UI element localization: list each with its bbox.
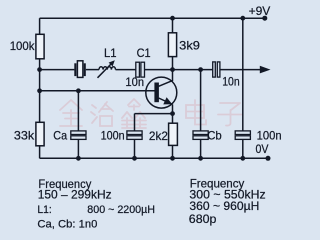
svg-text:800 ~ 2200µH: 800 ~ 2200µH: [87, 204, 155, 216]
node collector / 3k9 junction: [170, 67, 175, 72]
svg-text:10n: 10n: [125, 75, 144, 89]
node 100n ground: [132, 156, 137, 161]
svg-text:Cb: Cb: [207, 128, 222, 142]
wire left rail upper segment: [39, 18, 41, 35]
resistor R3 3k9: [168, 33, 176, 57]
wire Cb lower lead: [200, 139, 202, 158]
capacitor Cb: [193, 131, 208, 140]
crystal X1: [74, 61, 85, 78]
wire C1 to collector node: [145, 69, 173, 71]
wire 3k9 top lead: [172, 18, 174, 33]
wire left rail lower segment: [39, 146, 41, 159]
wire 100n lower lead: [134, 139, 136, 158]
node Cb tap: [198, 67, 203, 72]
wire left rail middle segment: [39, 59, 41, 123]
capacitor C2 100n emitter bypass: [127, 131, 142, 140]
svg-text:3k9: 3k9: [179, 39, 200, 53]
svg-text:L1: L1: [104, 46, 117, 60]
wire Cb vertical: [200, 70, 202, 131]
inductor L1 adjustable: [98, 60, 116, 78]
node decoupling ground: [240, 156, 245, 161]
svg-text:680p: 680p: [189, 212, 217, 226]
wire left rail to crystal: [40, 69, 75, 71]
0V terminal dot: [266, 156, 271, 161]
wire collector node to Cb node: [173, 69, 213, 71]
wire L1 to C1: [116, 69, 136, 71]
resistor R1 100k: [36, 34, 44, 59]
wire decoupling vertical: [242, 18, 244, 131]
svg-text:100n: 100n: [257, 128, 282, 142]
svg-text:Ca: Ca: [53, 128, 67, 142]
capacitor Ca: [71, 131, 86, 140]
wire 2k2 bottom lead: [172, 145, 174, 158]
svg-text:+9V: +9V: [249, 4, 271, 18]
node Ca tap: [76, 88, 81, 93]
wire top +9V rail: [40, 17, 265, 19]
node emitter junction: [170, 111, 175, 116]
node Cb ground: [198, 156, 203, 161]
svg-text:L1:: L1:: [37, 204, 51, 216]
wire 3k9 bottom lead: [172, 57, 174, 70]
node +9V rail to 3k9: [170, 16, 175, 21]
wire crystal to L1: [86, 69, 99, 71]
node base row on left rail: [37, 88, 42, 93]
node crystal-row tap on left rail: [37, 67, 42, 72]
output arrowhead: [260, 66, 271, 74]
wire bottom 0V rail: [40, 157, 268, 159]
capacitor C4 10n output coupling: [213, 62, 220, 77]
node Ca ground: [76, 156, 81, 161]
watermark: [60, 99, 242, 128]
svg-text:150 – 299kHz: 150 – 299kHz: [38, 188, 112, 202]
svg-text:2k2: 2k2: [149, 129, 168, 143]
svg-text:100n: 100n: [101, 128, 125, 142]
svg-text:0V: 0V: [256, 142, 269, 156]
svg-text:Ca, Cb: 1n0: Ca, Cb: 1n0: [37, 219, 97, 231]
wire emitter vertical: [172, 104, 174, 124]
wire 10n to output: [220, 69, 261, 71]
wire emitter jog to 100n: [135, 113, 173, 115]
resistor R2 33k: [36, 122, 44, 146]
wire 100n upper lead: [134, 114, 136, 131]
wire Ca upper lead: [77, 91, 79, 131]
svg-text:100k: 100k: [10, 39, 36, 53]
capacitor C1: [136, 62, 145, 77]
svg-text:33k: 33k: [14, 128, 35, 142]
resistor R4 2k2: [169, 123, 178, 145]
wire base row: [40, 90, 155, 92]
node 2k2 ground: [170, 156, 175, 161]
+9V terminal dot: [262, 16, 267, 21]
wire decoupling lower lead: [242, 139, 244, 158]
svg-text:C1: C1: [137, 46, 151, 60]
node +9V rail to decoupling cap: [240, 16, 245, 21]
transistor Q1: [146, 70, 177, 109]
svg-text:10n: 10n: [222, 75, 240, 89]
svg-text:360 ~ 960µH: 360 ~ 960µH: [189, 199, 259, 213]
capacitor C5 100n supply decoupling: [235, 131, 250, 140]
wire Ca lower lead: [77, 139, 79, 158]
